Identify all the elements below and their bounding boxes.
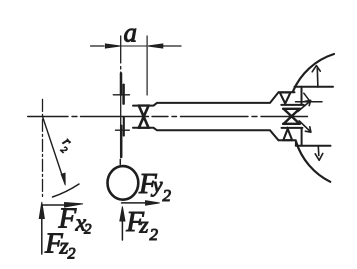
force Fz2 circle arrow xyxy=(121,220,123,240)
tooth arrow bottom outer head xyxy=(315,153,323,160)
bearing X2 housing tick bottom xyxy=(282,127,303,129)
force Fz2 circle arrowhead xyxy=(120,207,125,222)
force Fy2 arrowhead xyxy=(146,201,160,206)
hub top line xyxy=(279,91,295,93)
radius arrowhead xyxy=(61,173,65,185)
rim inner line top xyxy=(295,86,334,88)
pitch circle arc xyxy=(53,184,80,197)
tooth arrow inner top xyxy=(298,101,311,112)
tooth arrow inner top head xyxy=(305,100,311,105)
bearing X1 cross xyxy=(139,106,149,128)
rim vertical bottom xyxy=(301,128,303,146)
force Fy2 arrow xyxy=(122,202,147,204)
mesh axis lower dash xyxy=(119,159,121,164)
dimension a arrowhead right xyxy=(148,44,163,48)
svg-text:2: 2 xyxy=(163,186,172,205)
radius arrow xyxy=(43,117,63,178)
mesh tooth bar lower B xyxy=(123,117,125,135)
tooth arrow inner bottom xyxy=(299,121,309,131)
shaft top line left section xyxy=(133,92,279,105)
force Fz2 circle label xyxy=(125,206,158,244)
force Fy2 label xyxy=(138,168,172,205)
bearing X2 caps xyxy=(283,109,300,124)
force Fz2 arrow xyxy=(41,218,43,254)
bearing X1 caps xyxy=(138,106,149,128)
mesh tooth bar upper B xyxy=(122,85,125,104)
dimension a middle segment xyxy=(121,45,147,47)
extension line / gear mesh axis xyxy=(120,36,122,157)
mesh pitch tick upper xyxy=(113,94,129,96)
node O vertical dash-dot axis xyxy=(42,99,44,199)
mesh pitch tick lower xyxy=(116,129,130,131)
force Fz2 label xyxy=(44,228,76,263)
extension line right (bearing plane) xyxy=(146,36,148,95)
tooth arrow bottom outer stem xyxy=(317,147,320,156)
hub bottom line xyxy=(279,139,296,141)
force Fx2 label xyxy=(58,203,93,238)
bearing X2 cross xyxy=(284,109,300,124)
dimension a line right xyxy=(163,45,181,47)
force Fx2 arrowhead xyxy=(65,203,84,208)
gear cone arc bottom xyxy=(296,142,330,182)
rim hub step bottom xyxy=(295,140,297,145)
svg-text:2: 2 xyxy=(68,246,76,263)
centerline shaft axis xyxy=(28,116,308,118)
tooth arrow top outer head xyxy=(312,66,320,72)
shaft bottom line left section xyxy=(133,128,279,141)
force Fx2 arrow xyxy=(42,204,66,206)
bearing roller triangle top xyxy=(280,92,291,103)
bearing roller triangle bottom xyxy=(283,129,292,140)
rim vertical top xyxy=(301,87,303,105)
tooth arrow top outer stem xyxy=(316,68,319,87)
mesh tooth bar upper A xyxy=(120,73,123,94)
gear section circle xyxy=(108,166,139,200)
svg-text:2: 2 xyxy=(84,222,92,238)
dimension a arrowhead left xyxy=(105,44,120,48)
bearing X2 housing tick top xyxy=(281,104,303,106)
rim inner line bottom xyxy=(296,145,331,147)
tooth diagonal top xyxy=(304,93,310,101)
rim step line top xyxy=(296,101,323,103)
svg-text:y: y xyxy=(151,172,163,197)
dimension a line left xyxy=(91,45,104,47)
tooth arrow inner bottom head xyxy=(305,127,311,132)
svg-text:2: 2 xyxy=(58,145,69,156)
svg-text:z: z xyxy=(139,213,149,238)
svg-text:2: 2 xyxy=(150,225,159,244)
gear cone arc top xyxy=(293,54,334,91)
force Fz2 arrowhead xyxy=(39,202,44,219)
svg-text:a: a xyxy=(124,18,138,48)
mesh tooth bar lower A xyxy=(120,126,123,157)
